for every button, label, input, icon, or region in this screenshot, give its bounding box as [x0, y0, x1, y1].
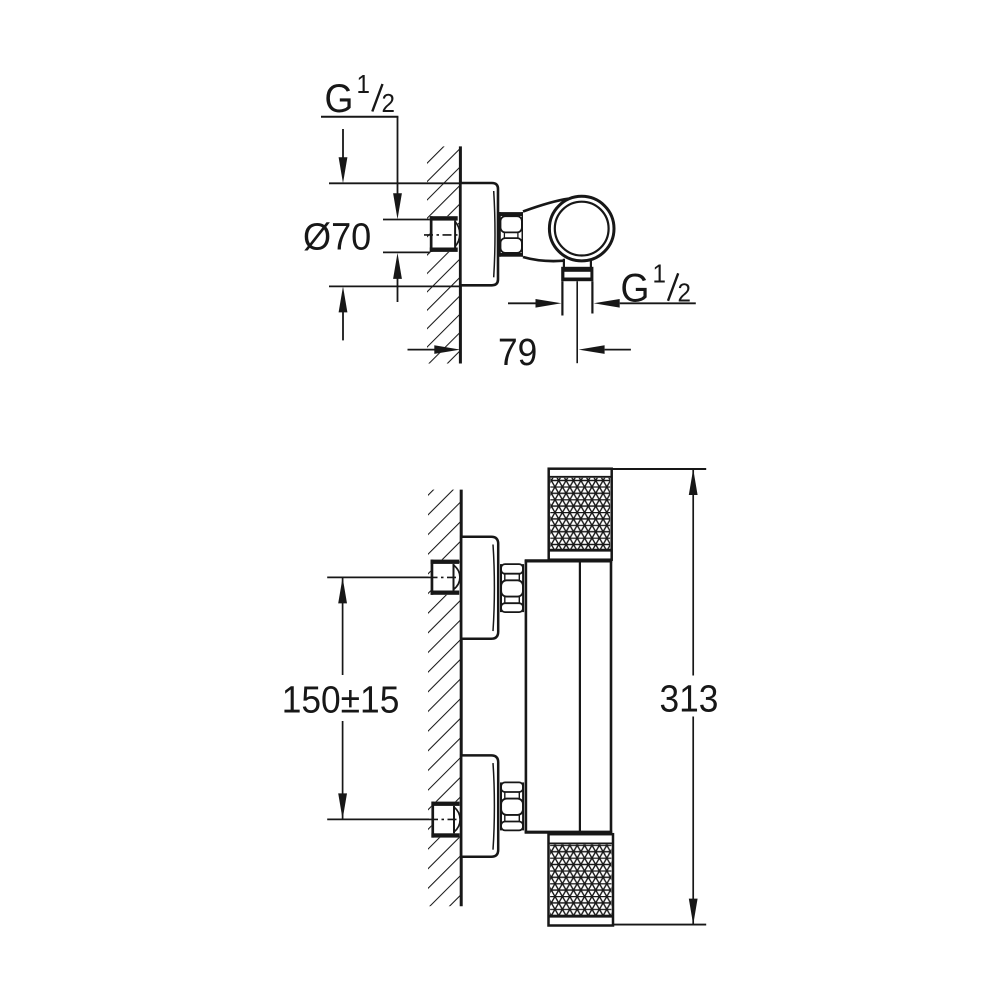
extension line pipe top [383, 219, 430, 221]
svg-text:G: G [325, 77, 354, 122]
svg-text:2: 2 [382, 89, 395, 118]
outlet neck [564, 259, 591, 268]
svg-text:1: 1 [653, 260, 666, 289]
dimension line 150±15 with arrows [338, 577, 347, 819]
outlet union nut [561, 267, 593, 281]
svg-text:2: 2 [678, 279, 691, 308]
wall hatching (top drawing) [427, 146, 460, 363]
extension line escutcheon top [329, 182, 460, 184]
upper escutcheon flange [461, 537, 498, 639]
svg-text:G: G [621, 266, 650, 311]
313 extension line top [612, 468, 706, 470]
svg-text:Ø70: Ø70 [303, 214, 371, 257]
wall line (top drawing) [459, 146, 462, 363]
dimension arrow pipe bottom (up arrow) [393, 253, 402, 302]
bottom knurled cap [549, 834, 614, 925]
dimension label G 1/2 (outlet) [621, 260, 691, 311]
lower S-union hex nut [500, 782, 524, 830]
upper S-union hex nut [500, 564, 524, 612]
dimension line 313 with arrows [689, 469, 698, 925]
wall line (bottom drawing) [460, 490, 463, 907]
150±15 extension line lower / centerline [327, 818, 460, 820]
supply nipple through wall (top drawing) [424, 216, 460, 252]
escutcheon (top drawing) [460, 183, 498, 285]
valve knob outer circle (top drawing) [549, 196, 614, 261]
outlet centerline [576, 281, 578, 363]
extension line pipe bottom [383, 251, 430, 253]
valve body bar (bottom drawing) [525, 560, 613, 834]
wall hatching (bottom drawing) [428, 490, 461, 907]
svg-text:1: 1 [357, 70, 370, 99]
150±15 extension line upper / centerline [327, 576, 460, 578]
svg-text:150±15: 150±15 [282, 678, 400, 720]
outlet pipe [562, 281, 592, 315]
extension line escutcheon bottom [329, 285, 460, 287]
dimension arrow Ø70 bottom [339, 286, 348, 340]
dimension G 1/2 outlet arrows [508, 299, 696, 308]
leader line G 1/2 down to pipe [393, 117, 402, 219]
lower wall nipple [431, 802, 460, 838]
dimension 79 [408, 345, 631, 354]
svg-text:313: 313 [660, 677, 719, 719]
valve knob inner circle [555, 202, 609, 256]
svg-text:79: 79 [498, 331, 537, 373]
dimension arrow Ø70 top [339, 129, 348, 183]
valve body cone (top drawing) [523, 199, 583, 262]
dimension label G 1/2 (top) [321, 70, 398, 121]
top knurled cap [549, 469, 612, 560]
upper wall nipple [431, 560, 460, 595]
S-union hex nut (top drawing) [499, 212, 523, 257]
lower escutcheon flange [461, 755, 498, 856]
313 extension line bottom [614, 924, 707, 926]
